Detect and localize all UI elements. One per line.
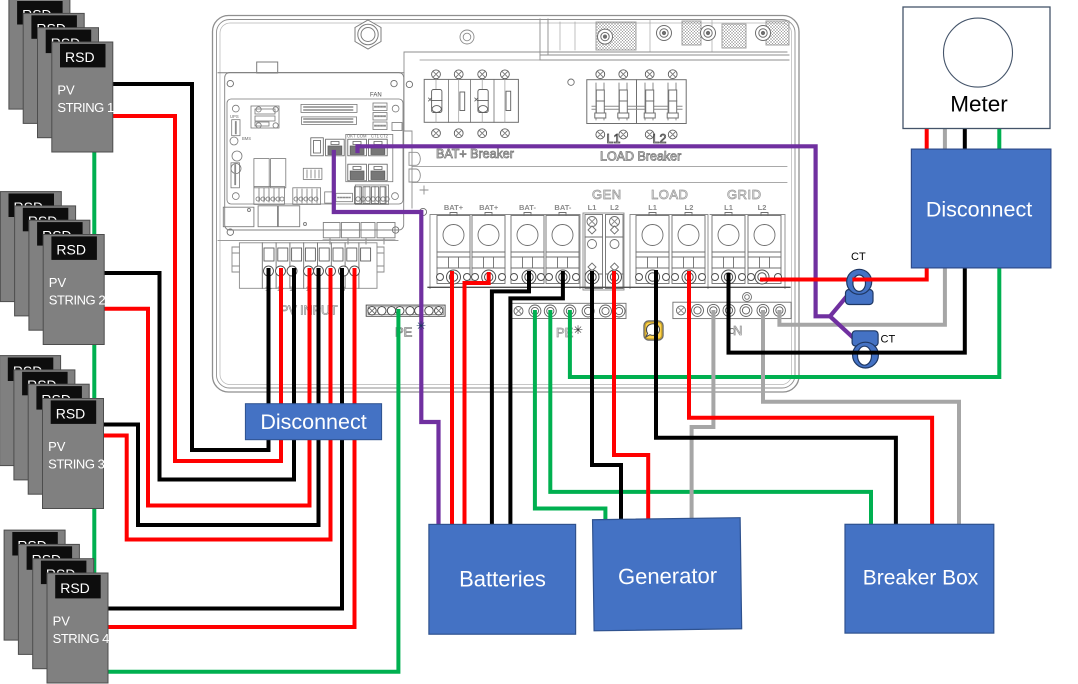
Generator box xyxy=(593,518,742,631)
group labels GEN LOAD GRID xyxy=(592,187,762,202)
svg-text:PV: PV xyxy=(53,614,71,629)
RJ45 jack CT1 xyxy=(348,139,367,156)
svg-text:CT: CT xyxy=(881,334,896,346)
PV module (back panel 1) of string 3 xyxy=(0,356,61,466)
wire red battery positive 1 xyxy=(450,273,454,526)
svg-text:Meter: Meter xyxy=(950,92,1008,117)
svg-text:Disconnect: Disconnect xyxy=(926,198,1032,222)
svg-text:CT: CT xyxy=(851,251,866,263)
svg-text:STRING 1: STRING 1 xyxy=(57,100,114,115)
svg-text:RSD: RSD xyxy=(56,242,86,258)
terminal screws row xyxy=(437,270,782,284)
RJ45 jack BMS xyxy=(326,139,345,156)
svg-text:BAT+ Breaker: BAT+ Breaker xyxy=(436,147,514,161)
wire purple CT branch lower xyxy=(830,316,854,338)
LOAD breaker xyxy=(587,70,686,139)
svg-text:L2: L2 xyxy=(610,203,619,212)
PV string 3 stack xyxy=(0,356,105,509)
svg-text:L2: L2 xyxy=(685,203,694,212)
comb block xyxy=(303,168,322,179)
wire purple BMS PCB jack to Batteries xyxy=(334,152,439,526)
CT sensor upper (grid L2) xyxy=(846,269,874,304)
wire red GRID L2 through CT1 to Meter xyxy=(852,127,926,280)
PV module (back panel 2) of string 4 xyxy=(18,544,79,654)
LOAD terminal blocks xyxy=(630,213,708,289)
svg-text:CT1 CT2: CT1 CT2 xyxy=(371,134,389,139)
svg-text:GRID: GRID xyxy=(727,187,762,202)
BAT+ breaker xyxy=(424,70,518,138)
PV module (back panel 2) of string 1 xyxy=(23,13,84,123)
svg-text:BAT+: BAT+ xyxy=(444,203,464,212)
wire red LOAD L2 to Breaker Box xyxy=(689,273,932,526)
RJ45 jack row2 b xyxy=(369,164,388,181)
svg-text:L1: L1 xyxy=(588,203,597,212)
PV string 2 label xyxy=(49,275,106,307)
PV module (back panel 3) of string 3 xyxy=(28,384,89,494)
svg-text:STRING 3: STRING 3 xyxy=(48,456,105,471)
CT sensor lower (grid L1) xyxy=(852,331,878,368)
svg-text:Generator: Generator xyxy=(618,563,717,589)
svg-text:BAT-: BAT- xyxy=(554,203,571,212)
wire green PE* to Breaker Box xyxy=(550,312,871,526)
wire black PV string3 - xyxy=(103,270,319,525)
wire red PV string1 + xyxy=(112,116,281,461)
D holes xyxy=(409,152,420,165)
PV module (back panel 1) of string 1 xyxy=(9,0,70,109)
terminal labels BAT+ BAT+ BAT- BAT- L1 L2 ... xyxy=(444,203,767,212)
PV module (back panel 3) of string 1 xyxy=(38,28,99,138)
svg-text:FAN: FAN xyxy=(370,93,382,99)
control PCB U1 xyxy=(227,99,403,204)
Meter box xyxy=(903,7,1050,129)
PV module (back panel 2) of string 2 xyxy=(15,206,76,316)
transformer boxes below plate xyxy=(218,206,398,244)
bottom strip mid xyxy=(293,188,321,205)
PV module (back panel 1) of string 4 xyxy=(4,530,65,640)
svg-text:LOAD Breaker: LOAD Breaker xyxy=(600,150,681,164)
PV input terminal numbers xyxy=(265,287,357,293)
svg-text:PV: PV xyxy=(57,83,75,98)
DIP strip 2 xyxy=(302,117,357,125)
PV module (back panel 3) of string 4 xyxy=(33,559,94,669)
PV string 1 stack xyxy=(9,0,114,152)
svg-text:✳: ✳ xyxy=(573,323,583,337)
PV string 2 stack xyxy=(0,192,105,345)
case screws xyxy=(227,79,751,334)
Breaker Box xyxy=(845,524,994,633)
svg-text:PV: PV xyxy=(49,275,67,290)
wire red GRID L2 left segment into CT1 xyxy=(762,278,846,282)
wire green PE* to Generator xyxy=(535,312,606,522)
PV module (front panel) of string 1 xyxy=(52,42,113,152)
wire red PV string2 + xyxy=(104,270,310,506)
wire black GRID L1 through CT2 to Meter xyxy=(729,127,965,353)
wire purple comms PCB jack to CT junction xyxy=(358,146,831,316)
bottom strip right xyxy=(355,185,388,204)
RJ45 jack block xyxy=(311,134,393,203)
PV string 4 stack xyxy=(4,530,109,683)
svg-text:BAT-: BAT- xyxy=(519,203,536,212)
PV module (back panel 1) of string 2 xyxy=(0,192,61,302)
tiny pcb labels xyxy=(230,93,389,142)
GEN terminal blocks xyxy=(583,213,624,290)
round connectors on top band xyxy=(598,26,771,45)
hex gland xyxy=(355,20,381,49)
breaker sub-panel xyxy=(404,52,787,208)
wire gray neutral N bar to Meter xyxy=(779,127,945,325)
terminal rail bottom line xyxy=(428,286,790,288)
wire red GEN L2 to Generator xyxy=(614,273,648,521)
case top-left stub xyxy=(218,62,404,73)
svg-text:LOAD: LOAD xyxy=(651,187,688,202)
svg-text:GEN: GEN xyxy=(592,187,622,202)
svg-text:STRING 4: STRING 4 xyxy=(53,631,110,646)
IC cluster xyxy=(251,106,279,128)
svg-text:L1: L1 xyxy=(607,132,621,146)
RJ45 jack row2 a xyxy=(348,164,367,181)
wire gray neutral N bar to Generator xyxy=(692,312,714,521)
PV string 4 label xyxy=(53,614,110,646)
top right connector band xyxy=(460,19,789,60)
wire green PV ground chain: PE bar to PV string frames xyxy=(94,152,398,672)
BAT terminal blocks xyxy=(430,213,580,289)
wire red PV string4 + xyxy=(108,270,355,627)
svg-text:RSD: RSD xyxy=(65,49,95,65)
svg-text:PV: PV xyxy=(48,439,66,454)
wire black battery negative 2 xyxy=(510,273,563,526)
PV module (front panel) of string 2 xyxy=(43,235,104,345)
relays xyxy=(254,159,269,188)
Disconnect box grid xyxy=(911,149,1051,268)
wire purple CT branch upper xyxy=(830,296,847,316)
pcb corner screws xyxy=(232,105,239,112)
GRID terminal blocks xyxy=(710,213,785,289)
DIP strip 1 xyxy=(301,104,357,112)
wire black PV string1 - xyxy=(112,84,269,450)
svg-text:RSD: RSD xyxy=(56,406,86,422)
svg-text:RSD: RSD xyxy=(60,580,90,596)
wire black battery negative 1 xyxy=(492,273,529,526)
PV input terminal assembly xyxy=(232,243,384,288)
yellow callout icon xyxy=(644,321,663,340)
wire black PV string2 - xyxy=(104,270,294,480)
svg-text:Disconnect: Disconnect xyxy=(260,410,366,434)
small white connector xyxy=(325,192,335,203)
breaker screws xyxy=(432,70,510,138)
Disconnect box PV xyxy=(245,404,381,440)
RJ45 jack CT2 xyxy=(369,139,388,156)
PV module (front panel) of string 3 xyxy=(43,399,104,509)
svg-text:Batteries: Batteries xyxy=(459,567,546,592)
bottom strip left xyxy=(254,186,285,204)
PE ground bar left xyxy=(366,305,445,316)
svg-text:BMS: BMS xyxy=(242,136,251,141)
left connectors xyxy=(232,120,240,136)
N bar xyxy=(673,302,791,318)
wire gray neutral N bar to Breaker Box xyxy=(763,312,959,526)
svg-text:L1: L1 xyxy=(648,203,657,212)
PV string 1 label xyxy=(57,83,114,115)
svg-text:N: N xyxy=(733,323,742,338)
svg-text:L1: L1 xyxy=(724,203,733,212)
svg-text:Breaker Box: Breaker Box xyxy=(863,567,979,590)
dip switches xyxy=(355,187,362,204)
PV module (back panel 2) of string 3 xyxy=(14,370,75,480)
wire red battery positive 2 xyxy=(465,274,489,526)
inverter case outline xyxy=(213,16,800,393)
wire black PV string4 - xyxy=(108,270,343,609)
FAN connectors xyxy=(373,103,387,111)
wire green PE* to Meter xyxy=(570,127,999,377)
svg-text:L2: L2 xyxy=(653,132,667,146)
PV module (back panel 3) of string 2 xyxy=(29,220,90,330)
wire black GEN L1 to Generator xyxy=(592,273,621,521)
wire black LOAD L1 to Breaker Box xyxy=(656,272,896,526)
svg-text:BAT+: BAT+ xyxy=(479,203,499,212)
svg-text:OKT COM: OKT COM xyxy=(347,134,367,139)
PV module (front panel) of string 4 xyxy=(47,573,108,683)
svg-text:STRING 2: STRING 2 xyxy=(49,292,106,307)
control board mounting plate xyxy=(225,73,404,231)
svg-text:UPS: UPS xyxy=(230,114,239,119)
svg-text:L2: L2 xyxy=(758,203,767,212)
svg-text:✳: ✳ xyxy=(416,319,426,333)
PE* ground bar xyxy=(511,303,626,318)
Batteries box xyxy=(429,524,576,634)
wire red PV string3 + xyxy=(103,270,331,540)
PV string 3 label xyxy=(48,439,105,471)
